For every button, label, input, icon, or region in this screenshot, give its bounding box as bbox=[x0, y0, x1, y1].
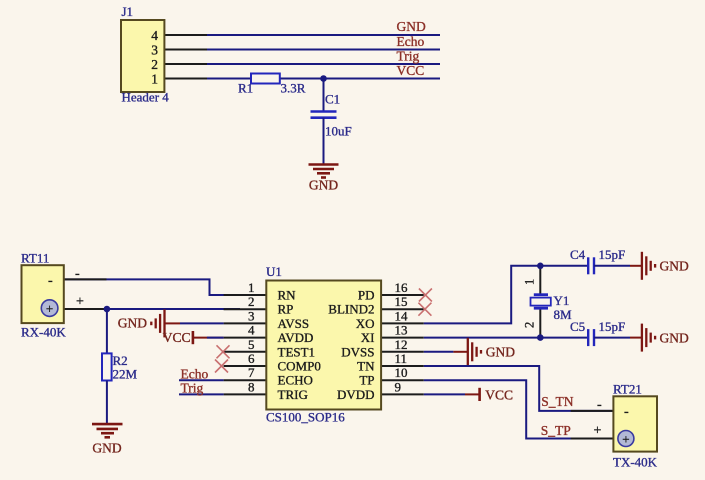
pin U1.15 bbox=[381, 308, 424, 310]
wire Echo net (J1 pin3) bbox=[164, 49, 440, 51]
svg-text:RT21: RT21 bbox=[613, 382, 642, 397]
svg-text:GND: GND bbox=[309, 178, 338, 193]
resistor R1 bbox=[251, 74, 280, 84]
svg-text:RX-40K: RX-40K bbox=[21, 325, 66, 340]
svg-text:15pF: 15pF bbox=[599, 319, 626, 334]
svg-text:+: + bbox=[76, 295, 84, 310]
svg-text:2: 2 bbox=[248, 294, 255, 309]
wire C4 to ground bbox=[594, 265, 630, 267]
svg-text:3.3R: 3.3R bbox=[281, 81, 306, 96]
svg-text:TEST1: TEST1 bbox=[278, 344, 316, 359]
ground power port (U1 pin3) bbox=[165, 322, 181, 324]
svg-text:AVSS: AVSS bbox=[278, 316, 310, 331]
svg-text:RN: RN bbox=[278, 288, 297, 303]
svg-text:VCC: VCC bbox=[397, 63, 425, 78]
svg-text:C1: C1 bbox=[325, 92, 340, 107]
capacitor C1 bbox=[311, 110, 337, 113]
pin U1.12 bbox=[381, 351, 424, 353]
svg-text:15pF: 15pF bbox=[599, 247, 626, 262]
wire R2 bottom to ground bbox=[106, 381, 108, 424]
svg-text:22M: 22M bbox=[113, 367, 138, 382]
svg-text:-: - bbox=[48, 274, 53, 289]
svg-text:12: 12 bbox=[395, 337, 408, 352]
RT21 plus terminal circle bbox=[618, 431, 634, 447]
ground power port (C5) bbox=[642, 324, 655, 352]
pin U1.10 bbox=[381, 379, 424, 381]
pin U1.13 bbox=[381, 337, 424, 339]
svg-text:Header 4: Header 4 bbox=[122, 90, 170, 105]
wire Echo (U1 pin7) bbox=[179, 379, 224, 381]
svg-text:S_TP: S_TP bbox=[541, 423, 571, 438]
svg-text:GND: GND bbox=[92, 441, 121, 456]
pin U1.8 bbox=[224, 393, 267, 395]
svg-text:Y1: Y1 bbox=[554, 293, 570, 308]
svg-text:10uF: 10uF bbox=[325, 124, 352, 139]
svg-text:U1: U1 bbox=[266, 264, 282, 279]
svg-text:1: 1 bbox=[523, 279, 537, 285]
wire GND net (J1 pin4) bbox=[164, 34, 440, 36]
pin U1.4 bbox=[224, 337, 267, 339]
svg-text:GND: GND bbox=[660, 259, 689, 274]
crystal Y1 bbox=[539, 266, 541, 294]
RT11 plus terminal circle bbox=[41, 300, 58, 317]
junction node XI/Y1 bbox=[537, 334, 544, 341]
wire XI (U1 pin13 to C5) bbox=[424, 337, 588, 339]
pin U1.3 bbox=[224, 322, 267, 324]
svg-text:PD: PD bbox=[358, 288, 375, 303]
pin U1.1 bbox=[224, 294, 267, 296]
svg-text:DVDD: DVDD bbox=[337, 387, 375, 402]
transducer RT21 body bbox=[613, 396, 657, 451]
svg-text:C4: C4 bbox=[570, 247, 586, 262]
svg-text:Trig: Trig bbox=[397, 49, 420, 64]
svg-text:XI: XI bbox=[361, 330, 375, 345]
svg-text:RP: RP bbox=[278, 302, 294, 317]
svg-text:3: 3 bbox=[151, 43, 158, 58]
svg-text:CS100_SOP16: CS100_SOP16 bbox=[266, 410, 345, 425]
no-ERC X (U1 pin16) bbox=[419, 289, 432, 302]
svg-text:15: 15 bbox=[395, 294, 408, 309]
connector J1 body bbox=[121, 20, 164, 92]
svg-text:Trig: Trig bbox=[181, 380, 204, 395]
no-ERC X (U1 pin5) bbox=[217, 345, 230, 358]
no-ERC X (U1 pin15) bbox=[418, 303, 431, 316]
svg-text:1: 1 bbox=[151, 72, 158, 87]
svg-text:J1: J1 bbox=[122, 4, 134, 19]
svg-text:TP: TP bbox=[359, 373, 374, 388]
wire Trig net (J1 pin2) bbox=[164, 63, 440, 65]
wire XO (U1 pin14 to top rail) bbox=[424, 266, 588, 324]
pin RT11 minus bbox=[64, 278, 107, 280]
svg-text:COMP0: COMP0 bbox=[278, 359, 321, 374]
svg-text:3: 3 bbox=[248, 308, 255, 323]
wire C5 to ground bbox=[594, 337, 630, 339]
svg-text:TRIG: TRIG bbox=[278, 387, 308, 402]
pin J1.3 bbox=[164, 49, 207, 51]
svg-text:ECHO: ECHO bbox=[278, 373, 313, 388]
svg-text:4: 4 bbox=[151, 28, 158, 43]
pin RT11 plus bbox=[64, 308, 107, 310]
svg-text:2: 2 bbox=[151, 57, 158, 72]
wire TN / S_TN (U1 pin11 to RT21-) bbox=[424, 366, 614, 411]
pin U1.6 bbox=[224, 365, 267, 367]
wire R2 top bbox=[106, 309, 108, 353]
svg-text:16: 16 bbox=[395, 280, 409, 295]
pin J1.2 bbox=[164, 63, 207, 65]
resistor R2 bbox=[102, 353, 112, 380]
ground symbol (R2) bbox=[92, 424, 123, 437]
pin U1.14 bbox=[381, 322, 424, 324]
junction node R2/RT11+ bbox=[104, 306, 111, 313]
VCC power port (U1 pin4) bbox=[193, 337, 224, 339]
svg-text:9: 9 bbox=[395, 379, 402, 394]
pin RT21 minus bbox=[571, 410, 614, 412]
svg-text:4: 4 bbox=[248, 323, 255, 338]
pin J1.4 bbox=[164, 34, 207, 36]
svg-text:TX-40K: TX-40K bbox=[613, 455, 658, 470]
svg-text:+: + bbox=[594, 424, 602, 439]
svg-text:10: 10 bbox=[395, 365, 408, 380]
svg-text:Echo: Echo bbox=[181, 366, 209, 381]
ground power port (C4) bbox=[642, 252, 655, 280]
svg-text:+: + bbox=[46, 301, 53, 316]
svg-text:+: + bbox=[622, 431, 629, 446]
pin J1.1 bbox=[164, 78, 207, 80]
wire RT11 minus to U1 pin1 bbox=[64, 279, 240, 295]
svg-text:5: 5 bbox=[248, 337, 255, 352]
pin U1.7 bbox=[224, 379, 267, 381]
VCC power port (U1 pin9) bbox=[424, 393, 465, 395]
svg-text:GND: GND bbox=[486, 345, 515, 360]
svg-text:TN: TN bbox=[357, 359, 375, 374]
svg-text:VCC: VCC bbox=[163, 330, 191, 345]
wire Trig (U1 pin8) bbox=[179, 393, 224, 395]
svg-text:BLIND2: BLIND2 bbox=[328, 302, 374, 317]
pin U1.16 bbox=[381, 294, 424, 296]
svg-text:7: 7 bbox=[248, 365, 255, 380]
svg-text:11: 11 bbox=[395, 351, 408, 366]
pin U1.11 bbox=[381, 365, 424, 367]
pin RT21 plus bbox=[571, 438, 614, 440]
transducer RT11 body bbox=[22, 265, 64, 323]
svg-text:14: 14 bbox=[395, 308, 409, 323]
IC U1 body bbox=[266, 281, 381, 410]
wire TP / S_TP (U1 pin10 to RT21+) bbox=[424, 380, 614, 438]
no-ERC X (U1 pin6) bbox=[215, 360, 228, 373]
svg-text:S_TN: S_TN bbox=[541, 394, 574, 409]
svg-text:8: 8 bbox=[248, 379, 255, 394]
svg-text:-: - bbox=[624, 405, 629, 420]
svg-text:GND: GND bbox=[118, 316, 147, 331]
pin U1.2 bbox=[224, 308, 267, 310]
svg-text:DVSS: DVSS bbox=[341, 344, 374, 359]
svg-text:R1: R1 bbox=[238, 81, 253, 96]
wire VCC net (R1 to right end) bbox=[280, 78, 441, 80]
wire C1 top bbox=[323, 79, 325, 112]
svg-text:1: 1 bbox=[248, 280, 255, 295]
junction node VCC/C1 bbox=[320, 75, 327, 82]
wire C1 bottom to ground bbox=[323, 118, 325, 164]
wire VCC net (J1 pin1 to R1) bbox=[164, 78, 251, 80]
junction node XO/Y1 bbox=[537, 263, 544, 270]
svg-text:AVDD: AVDD bbox=[278, 330, 314, 345]
wire DVSS (U1 pin12) bbox=[424, 351, 454, 353]
pin U1.5 bbox=[224, 351, 267, 353]
svg-text:RT11: RT11 bbox=[21, 251, 49, 266]
ground power port (U1 pin12) bbox=[468, 338, 481, 366]
svg-text:6: 6 bbox=[248, 351, 255, 366]
svg-text:2: 2 bbox=[523, 322, 537, 328]
svg-text:C5: C5 bbox=[570, 319, 585, 334]
svg-text:Echo: Echo bbox=[397, 34, 425, 49]
wire RT11 plus to U1 pin2 bbox=[64, 308, 240, 310]
svg-text:13: 13 bbox=[395, 323, 408, 338]
ground symbol (C1) bbox=[309, 165, 339, 178]
pin U1.9 bbox=[381, 393, 424, 395]
capacitor C4 bbox=[587, 257, 589, 274]
svg-text:XO: XO bbox=[356, 316, 375, 331]
svg-text:GND: GND bbox=[397, 19, 426, 34]
svg-text:VCC: VCC bbox=[485, 388, 513, 403]
svg-text:GND: GND bbox=[660, 330, 689, 345]
capacitor C5 bbox=[587, 329, 589, 346]
